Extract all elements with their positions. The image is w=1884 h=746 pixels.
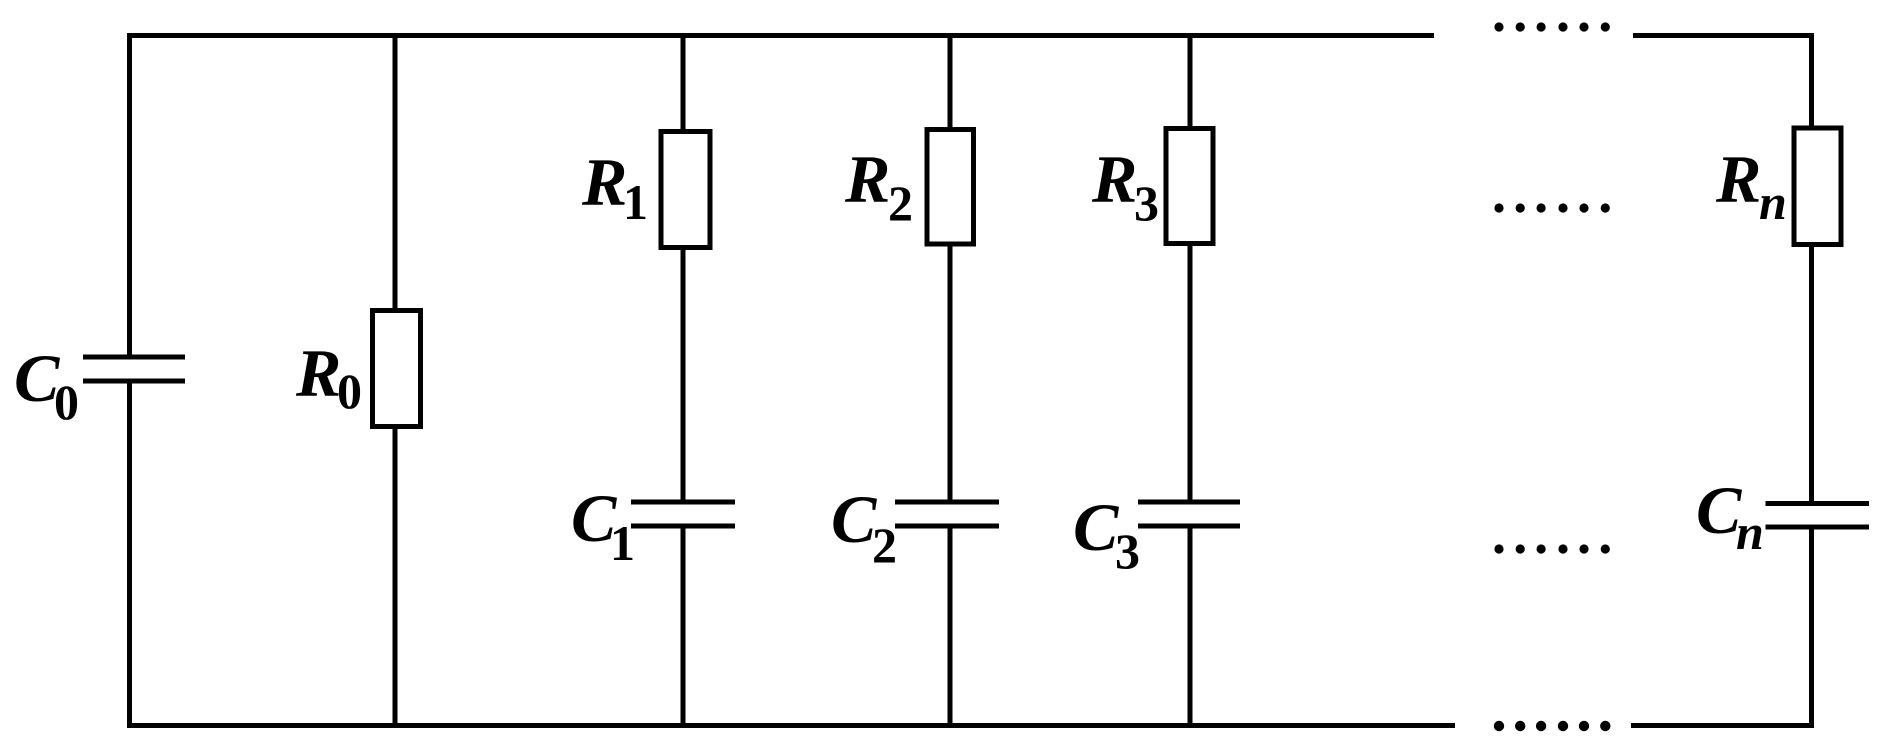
svg-text:C: C bbox=[1073, 489, 1119, 565]
wire: R3C3 branch, middle segment bbox=[1188, 246, 1193, 500]
svg-text:3: 3 bbox=[1134, 175, 1159, 231]
wire: R3C3 branch, lower segment bbox=[1188, 529, 1193, 729]
label C0 bbox=[14, 340, 79, 430]
svg-text:1: 1 bbox=[610, 515, 635, 571]
svg-text:R: R bbox=[295, 335, 341, 411]
label Rn bbox=[1715, 141, 1787, 230]
capacitor C0 bbox=[83, 355, 185, 384]
wire: RnCn branch, upper segment bbox=[1809, 33, 1814, 126]
svg-text:R: R bbox=[844, 141, 890, 217]
label R3 bbox=[1091, 141, 1159, 231]
wire: RnCn branch, middle segment bbox=[1809, 247, 1814, 501]
capacitor Cn bbox=[1766, 501, 1870, 530]
label Cn bbox=[1696, 472, 1764, 560]
continuation dots (top bus) bbox=[1494, 22, 1610, 31]
capacitor C2 bbox=[895, 500, 999, 529]
resistor R2 bbox=[927, 130, 974, 245]
capacitor C3 bbox=[1138, 500, 1240, 529]
svg-text:3: 3 bbox=[1115, 523, 1140, 579]
wire: R2C2 branch, middle segment bbox=[948, 247, 953, 500]
svg-text:R: R bbox=[1091, 141, 1137, 217]
wire: R3C3 branch, upper segment bbox=[1188, 33, 1193, 126]
wire: R2C2 branch, upper segment bbox=[948, 33, 953, 127]
label R0 bbox=[295, 335, 362, 419]
svg-text:n: n bbox=[1759, 174, 1787, 230]
svg-text:C: C bbox=[831, 481, 877, 557]
wire: RnCn branch, lower segment bbox=[1809, 530, 1814, 729]
resistor R3 bbox=[1166, 129, 1213, 244]
capacitor C1 bbox=[631, 500, 735, 529]
svg-text:n: n bbox=[1736, 504, 1764, 560]
continuation dots (middle, lower row) bbox=[1494, 544, 1610, 553]
wire: bottom bus, right segment bbox=[1631, 723, 1814, 728]
continuation dots (bottom bus) bbox=[1494, 721, 1611, 731]
svg-text:2: 2 bbox=[872, 517, 897, 573]
wire: bottom bus, left segment bbox=[127, 723, 1455, 728]
wire: R1C1 branch, middle segment bbox=[681, 250, 686, 500]
label C1 bbox=[571, 480, 635, 571]
label C2 bbox=[831, 481, 897, 573]
wire: C0 branch, lower segment bbox=[127, 384, 132, 729]
resistor Rn bbox=[1794, 128, 1841, 245]
wire: R0 branch, lower segment bbox=[393, 429, 398, 728]
wire: R1C1 branch, lower segment bbox=[681, 529, 686, 729]
wire: R2C2 branch, lower segment bbox=[948, 529, 953, 729]
svg-text:0: 0 bbox=[54, 374, 79, 430]
wire: R0 branch, upper segment bbox=[393, 33, 398, 308]
continuation dots (middle, upper row) bbox=[1494, 203, 1610, 212]
label R2 bbox=[844, 141, 913, 231]
svg-text:1: 1 bbox=[623, 174, 648, 230]
wire: top bus, left segment bbox=[127, 33, 1434, 38]
svg-text:R: R bbox=[1715, 141, 1761, 217]
label R1 bbox=[581, 144, 648, 230]
svg-text:2: 2 bbox=[888, 175, 913, 231]
wire: top bus, right segment bbox=[1633, 33, 1814, 38]
svg-text:R: R bbox=[581, 144, 627, 220]
resistor R0 bbox=[373, 311, 421, 427]
wire: R1C1 branch, upper segment bbox=[681, 33, 686, 129]
label C3 bbox=[1073, 489, 1140, 579]
svg-text:0: 0 bbox=[337, 363, 362, 419]
wire: C0 branch, upper segment bbox=[127, 33, 132, 355]
resistor R1 bbox=[661, 132, 710, 248]
